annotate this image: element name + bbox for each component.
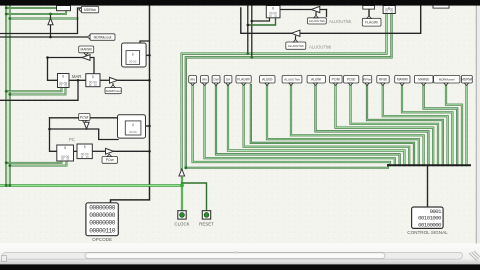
svg-text:00000110: 00000110: [89, 227, 115, 234]
svg-text:MDRWr: MDRWr: [461, 78, 473, 82]
svg-text:D Q: D Q: [269, 14, 277, 18]
svg-text:D Q: D Q: [385, 10, 393, 14]
svg-text:8: 8: [132, 53, 134, 57]
svg-text:MDRMuxout: MDRMuxout: [94, 35, 112, 39]
svg-text:IR0: IR0: [190, 78, 195, 82]
svg-text:ALUOUTlsb: ALUOUTlsb: [284, 78, 300, 82]
svg-text:00000000: 00000000: [89, 212, 115, 219]
svg-text:IRli: IRli: [202, 78, 207, 82]
svg-text:MARPCsel: MARPCsel: [106, 89, 121, 93]
svg-text:ALUOUTlsb: ALUOUTlsb: [288, 44, 304, 48]
svg-text:PCse: PCse: [106, 158, 114, 162]
svg-text:FLAGWr: FLAGWr: [237, 78, 250, 82]
svg-text:ALUOUTlsb: ALUOUTlsb: [329, 19, 352, 24]
svg-text:RESET: RESET: [199, 221, 214, 226]
svg-text:FLAGWr: FLAGWr: [365, 21, 379, 25]
svg-text:PClsb: PClsb: [347, 78, 356, 82]
svg-text:PCWr: PCWr: [80, 115, 90, 119]
svg-text:OPCODE: OPCODE: [92, 237, 112, 242]
svg-text:8: 8: [64, 146, 66, 150]
svg-text:MARWr: MARWr: [397, 78, 409, 82]
svg-text:MARWr: MARWr: [80, 48, 92, 52]
svg-text:PC: PC: [69, 137, 75, 142]
svg-text:PCWr: PCWr: [332, 78, 341, 82]
svg-text:CONTROL SIGNAL: CONTROL SIGNAL: [407, 230, 448, 235]
svg-text:00100000: 00100000: [418, 222, 442, 229]
svg-text:MAR: MAR: [72, 74, 81, 79]
svg-text:MDRMuxsel: MDRMuxsel: [439, 78, 455, 82]
svg-text:D Q: D Q: [81, 155, 89, 159]
svg-text:DW: DW: [214, 78, 219, 82]
svg-text:8: 8: [84, 145, 86, 149]
svg-text:8: 8: [272, 7, 274, 11]
svg-text:8: 8: [132, 123, 134, 127]
svg-text:ALUlsb: ALUlsb: [262, 78, 273, 82]
svg-text:ALUWr: ALUWr: [311, 78, 322, 82]
svg-text:MARlsb: MARlsb: [418, 78, 429, 82]
svg-text:8: 8: [92, 75, 94, 79]
svg-text:MDRlsb: MDRlsb: [84, 8, 96, 12]
svg-text:8: 8: [62, 75, 64, 79]
svg-text:ALUOUTlsb: ALUOUTlsb: [309, 19, 325, 23]
svg-text:D Q: D Q: [59, 84, 67, 88]
svg-text:D Q: D Q: [61, 157, 69, 161]
svg-text:CLOCK: CLOCK: [174, 221, 189, 226]
svg-text:D Q: D Q: [89, 83, 97, 87]
svg-text:ALUOUTlsb: ALUOUTlsb: [309, 45, 332, 50]
svg-text:RFWr: RFWr: [363, 78, 371, 82]
svg-text:RFlsb: RFlsb: [379, 78, 388, 82]
svg-text:00 00: 00 00: [129, 130, 137, 134]
svg-text:00000000: 00000000: [89, 220, 115, 227]
svg-text:00 00: 00 00: [129, 60, 137, 64]
svg-text:00000000: 00000000: [89, 205, 115, 212]
